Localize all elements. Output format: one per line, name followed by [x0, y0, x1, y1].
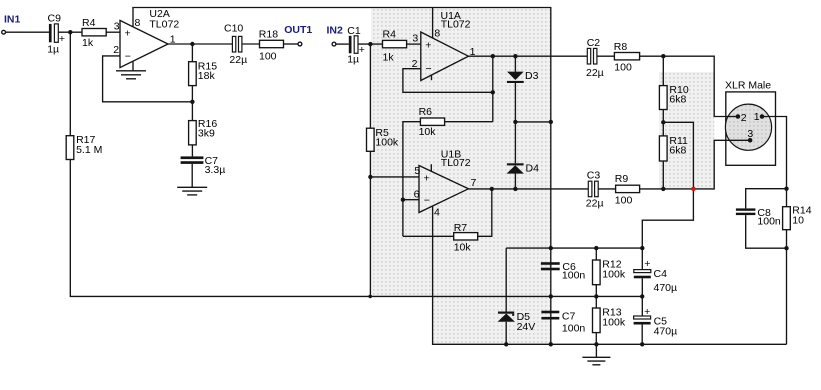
svg-text:6: 6	[414, 188, 420, 200]
capacitor C7 100n	[541, 310, 585, 334]
svg-text:100n: 100n	[562, 322, 586, 334]
node junction R5 / U1B pin 5	[368, 175, 372, 179]
wire R4 to U2A pin 3	[106, 31, 120, 33]
diode D4	[507, 122, 539, 189]
svg-text:+: +	[644, 258, 650, 270]
svg-text:10k: 10k	[454, 242, 472, 254]
svg-text:−: −	[125, 51, 131, 63]
svg-text:3: 3	[412, 32, 418, 44]
resistor R4	[82, 17, 106, 49]
node junction C9/R4/R17	[68, 30, 72, 34]
node junction R10/R11	[661, 120, 665, 124]
svg-text:OUT1: OUT1	[284, 24, 312, 36]
svg-text:TL072: TL072	[441, 157, 471, 169]
op-amp U1A	[412, 10, 476, 80]
ground under U2A	[116, 61, 146, 79]
svg-text:XLR Male: XLR Male	[725, 80, 771, 92]
node junction rail tap	[549, 120, 553, 124]
ground under C7	[177, 164, 207, 195]
svg-text:3: 3	[747, 128, 753, 140]
node junction feedback / R6	[491, 90, 495, 94]
node junction U1B out / R7	[490, 187, 494, 191]
wire XLR pin 2 lead inside	[726, 116, 738, 118]
svg-text:D4: D4	[526, 163, 540, 175]
resistor R18	[259, 28, 284, 62]
capacitor C4	[634, 258, 677, 294]
wire IN2 to C1	[336, 43, 349, 45]
resistor R5	[367, 127, 399, 151]
svg-text:100k: 100k	[375, 137, 399, 149]
wire R6 right leg	[445, 121, 493, 123]
grey background region lower block	[433, 296, 550, 344]
node junction R5 bottom ground row	[368, 295, 372, 299]
svg-text:18k: 18k	[198, 70, 216, 82]
wire IN1 to C9	[6, 31, 50, 33]
node red junction	[691, 187, 696, 192]
wire C10 to R18	[242, 43, 260, 45]
capacitor C6	[541, 261, 586, 282]
svg-text:4: 4	[434, 206, 440, 218]
svg-text:+: +	[644, 306, 650, 318]
wire XLR pin 1 to R14	[762, 117, 787, 207]
resistor R11	[659, 135, 688, 161]
resistor R17	[66, 134, 102, 159]
resistor R9	[615, 173, 640, 207]
wire U1A pin 8 to top rail	[432, 8, 434, 39]
wire R12 top leg	[595, 248, 597, 260]
svg-text:−: −	[424, 195, 430, 207]
resistor R10	[659, 84, 688, 109]
zener diode D5	[498, 311, 536, 344]
svg-text:+: +	[425, 40, 431, 52]
wire XLR pin 3 lead inside	[726, 139, 750, 141]
node junction C5 bottom	[640, 342, 644, 346]
wire feedback node vertical	[492, 56, 494, 122]
wire R17 bottom to ground row	[70, 160, 642, 297]
svg-text:10: 10	[792, 214, 804, 226]
node junction R8 / R10	[661, 54, 665, 58]
node junction U1A out / D3	[513, 54, 517, 58]
wire R8 to XLR pin 2	[640, 56, 738, 116]
svg-text:C4: C4	[654, 268, 668, 280]
svg-text:22µ: 22µ	[229, 54, 247, 66]
wire R18 to OUT1	[284, 43, 299, 45]
svg-text:10k: 10k	[419, 126, 437, 138]
diode D3	[507, 56, 539, 122]
svg-text:3: 3	[114, 20, 120, 32]
wire R5 bottom to ground row	[369, 151, 371, 296]
XLR pin 3	[747, 128, 753, 142]
wire R14 bottom to bottom row	[786, 230, 788, 345]
pin stub U1A pin 4	[431, 75, 433, 80]
node junction U1A out / feedback	[491, 54, 495, 58]
wire R9 to XLR pin 3	[640, 140, 751, 189]
wire U1B pin 4 down to bottom row	[433, 206, 787, 344]
wire C9 to R4	[58, 31, 82, 33]
resistor R16	[189, 118, 218, 145]
wire R10 top leg	[662, 56, 664, 85]
wire left column R17	[69, 32, 71, 136]
wire R4 to U1A pin 3	[407, 43, 421, 45]
svg-text:C9: C9	[48, 13, 62, 25]
wire U1A output row	[468, 55, 587, 57]
svg-text:+: +	[59, 33, 65, 45]
capacitor C9	[47, 13, 65, 56]
svg-text:D3: D3	[525, 70, 539, 82]
capacitor C10	[224, 22, 247, 66]
node IN1 terminal	[2, 13, 21, 34]
wire R15 top	[191, 44, 193, 62]
node junction C1/R4/R5	[368, 42, 372, 46]
svg-text:R8: R8	[614, 41, 628, 53]
XLR pin 1	[754, 111, 765, 123]
wire C8 bottom leg	[746, 215, 787, 248]
svg-text:22µ: 22µ	[586, 67, 604, 79]
node junction D3/D4 midpoint	[513, 120, 517, 124]
svg-text:100: 100	[259, 50, 277, 62]
wire C3 to R9	[598, 188, 615, 190]
capacitor C7 3.3u	[181, 155, 226, 176]
node junction R12 top	[594, 246, 598, 250]
wire D5 column	[505, 248, 507, 312]
wire U2A pin 8 to top rail	[132, 8, 134, 27]
resistor R4 (input U1A)	[383, 28, 407, 63]
node junction U1B out / D4	[513, 187, 517, 191]
wire U1B pin 6	[403, 199, 419, 201]
svg-text:C7: C7	[562, 310, 576, 322]
wire R12 bottom leg	[595, 285, 597, 308]
svg-text:24V: 24V	[517, 321, 536, 333]
svg-text:470µ: 470µ	[654, 326, 678, 338]
svg-text:5: 5	[414, 165, 420, 177]
node junction C4 bottom / row296	[640, 294, 644, 298]
wire supply row y248	[506, 247, 642, 249]
svg-text:+: +	[125, 28, 131, 40]
ground symbol bottom	[582, 344, 610, 365]
wire C2 to R8	[597, 55, 615, 57]
svg-text:3k9: 3k9	[198, 128, 215, 140]
svg-text:6k8: 6k8	[669, 145, 686, 157]
node junction R12 bottom	[594, 294, 598, 298]
capacitor C3	[586, 169, 604, 209]
capacitor C1	[347, 25, 365, 66]
resistor R14	[783, 205, 812, 230]
XLR connector circle	[725, 104, 771, 150]
svg-text:5.1 M: 5.1 M	[76, 144, 102, 156]
node junction C4 top	[640, 246, 644, 250]
svg-text:IN2: IN2	[327, 25, 344, 37]
svg-text:100: 100	[615, 195, 633, 207]
capacitor C5	[634, 306, 678, 338]
svg-text:100k: 100k	[602, 316, 626, 328]
node IN2 terminal	[327, 25, 344, 46]
wire U2A output to C10	[168, 43, 232, 45]
svg-text:1µ: 1µ	[347, 54, 359, 66]
svg-text:−: −	[426, 63, 432, 75]
wire R10 bottom leg	[662, 110, 664, 136]
capacitor C2	[586, 37, 604, 79]
wire R16 to C7	[191, 145, 193, 157]
grey background region right block	[659, 72, 714, 189]
wire R15 bottom	[191, 86, 193, 121]
svg-text:R4: R4	[383, 28, 397, 40]
svg-text:C3: C3	[587, 169, 601, 181]
node junction C6 bottom / ground row	[549, 294, 553, 298]
node junction R15/R16/feedback	[190, 100, 194, 104]
node junction R13 bottom / ground	[594, 342, 598, 346]
wire U1B output row	[468, 188, 588, 190]
wire U1A pin 2 feedback	[403, 69, 493, 93]
node junction R14 / C8 bottom	[784, 246, 788, 250]
node junction U2A out / R15	[190, 42, 194, 46]
svg-text:TL072: TL072	[441, 19, 471, 31]
wire R11 bottom leg	[662, 161, 664, 189]
svg-text:C1: C1	[347, 25, 361, 37]
wire top supply rail	[132, 8, 551, 345]
svg-text:C2: C2	[587, 37, 601, 49]
svg-text:1k: 1k	[82, 37, 94, 49]
resistor R13	[593, 307, 626, 333]
svg-text:R18: R18	[259, 28, 278, 40]
resistor R15	[189, 61, 218, 86]
XLR connector box	[726, 92, 776, 165]
svg-text:470µ: 470µ	[654, 282, 678, 294]
wire C8 top leg	[746, 189, 787, 209]
svg-text:1µ: 1µ	[47, 43, 59, 55]
svg-text:R4: R4	[82, 17, 96, 29]
svg-text:R9: R9	[615, 173, 629, 185]
grey background region main block	[371, 8, 550, 296]
svg-text:100: 100	[614, 61, 632, 73]
pin stub U1B pin 8	[430, 164, 432, 171]
svg-text:100k: 100k	[602, 268, 626, 280]
svg-text:6k8: 6k8	[669, 94, 686, 106]
node junction D5 bottom	[504, 342, 508, 346]
wire R13 bottom leg	[595, 333, 597, 345]
op-amp U2A	[113, 8, 179, 67]
resistor R8	[614, 41, 640, 73]
svg-text:R6: R6	[419, 106, 433, 118]
resistor R6	[419, 106, 445, 138]
wire R5 column	[369, 44, 371, 128]
svg-text:100n: 100n	[562, 270, 586, 282]
svg-text:8: 8	[135, 17, 141, 29]
svg-text:R7: R7	[454, 222, 468, 234]
svg-text:100n: 100n	[757, 216, 781, 228]
svg-text:1k: 1k	[383, 51, 395, 63]
svg-text:3.3µ: 3.3µ	[205, 164, 226, 176]
node junction R11 / output row	[661, 187, 665, 191]
wire U1B pin 5	[370, 176, 419, 178]
wire C4 bottom leg	[641, 278, 643, 316]
node junction rail bottom	[549, 342, 553, 346]
svg-text:2: 2	[113, 44, 119, 56]
svg-text:7: 7	[471, 177, 477, 189]
svg-text:+: +	[359, 44, 365, 56]
svg-text:TL072: TL072	[149, 18, 179, 30]
node junction R6 / U1B pin 6	[401, 198, 405, 202]
resistor R7	[454, 222, 478, 254]
resistor R12	[593, 259, 626, 285]
svg-text:IN1: IN1	[4, 13, 21, 25]
wire U2A pin 2 feedback loop	[103, 56, 193, 102]
svg-text:8: 8	[434, 27, 440, 39]
svg-text:22µ: 22µ	[586, 197, 604, 209]
capacitor C8	[736, 207, 781, 228]
svg-text:2: 2	[412, 58, 418, 70]
svg-text:+: +	[424, 172, 430, 184]
node junction rail / row248	[549, 246, 553, 250]
wire R7 left leg	[403, 235, 454, 237]
wire R10/R11 junction jumper down	[642, 122, 693, 248]
svg-text:1: 1	[754, 111, 760, 123]
node junction pin1 / C8 / R14	[784, 187, 788, 191]
wire R6 left to U1B pin 6	[403, 122, 421, 237]
XLR pin 2	[736, 112, 747, 124]
svg-text:C10: C10	[224, 22, 243, 34]
wire C1 to R4	[358, 43, 383, 45]
wire R7 right leg	[478, 189, 492, 236]
node OUT1 terminal	[284, 24, 312, 46]
wire C5 bottom leg	[641, 325, 643, 345]
wire D3 D4 midpoint to rail	[515, 121, 550, 123]
svg-text:2: 2	[741, 112, 747, 124]
wire C4 top leg	[641, 248, 643, 270]
op-amp U1B	[414, 149, 477, 219]
